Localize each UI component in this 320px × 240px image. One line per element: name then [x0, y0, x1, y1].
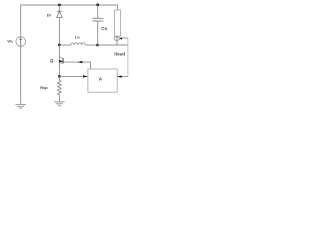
- svg-text:Rsp: Rsp: [40, 85, 48, 90]
- current probe arrowhead: [119, 37, 122, 40]
- source Vin circle: [16, 37, 26, 47]
- capacitor Co: [92, 5, 103, 45]
- feedback arrowhead into A: [117, 75, 121, 77]
- wire switch node down to transistor: [58, 45, 60, 76]
- svg-text:Iload: Iload: [114, 51, 125, 56]
- node capacitor top junction: [96, 4, 99, 7]
- ground below Vin: [15, 104, 26, 108]
- wire diode anode to switch node: [58, 17, 60, 45]
- svg-text:Vin: Vin: [7, 40, 13, 44]
- svg-text:Co: Co: [101, 26, 107, 31]
- node switch node (inductor left): [58, 44, 61, 47]
- transistor Q: [59, 56, 63, 64]
- resistor Rsp: [58, 76, 61, 101]
- svg-text:Dr: Dr: [47, 13, 52, 18]
- op-amp block A box: [88, 69, 117, 92]
- node capacitor bottom junction: [96, 44, 99, 47]
- svg-text:Q: Q: [50, 58, 54, 63]
- wire mid rail to feedback corner: [98, 44, 128, 46]
- diode Dr: [57, 5, 62, 17]
- ground below Rsp: [54, 102, 65, 106]
- resistor load box: [114, 10, 120, 36]
- wire sense signal to A: [59, 75, 87, 77]
- node source/Rsp junction: [58, 75, 61, 78]
- wire probe stub to feedback: [122, 37, 128, 39]
- gate drive arrowhead pointing left: [78, 61, 83, 63]
- wire gate drive from A to Q: [64, 62, 91, 69]
- wire load to probe: [116, 36, 118, 45]
- sense arrowhead pointing right into A: [83, 75, 88, 77]
- node switch/diode top junction: [58, 4, 61, 7]
- wire Vin bottom to ground: [20, 46, 22, 104]
- svg-text:Lo: Lo: [75, 34, 80, 39]
- current probe Iload ellipse: [114, 37, 119, 41]
- wire top rail: [21, 5, 118, 37]
- wire feedback into A: [117, 76, 128, 78]
- inductor Lo: [59, 43, 97, 45]
- wire feedback pink vertical: [127, 38, 129, 77]
- wire top rail drop to load: [117, 5, 119, 10]
